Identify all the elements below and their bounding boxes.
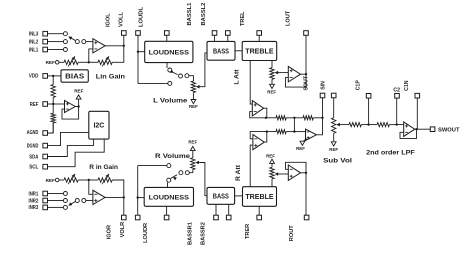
switch SW3 contact bypass (168, 81, 172, 85)
svg-text:SIN: SIN (320, 81, 326, 90)
svg-text:REF: REF (329, 147, 338, 152)
junction LOUDR / loudness in (137, 196, 139, 198)
selector SW1 contact INL1 (63, 48, 67, 52)
svg-text:IGOR: IGOR (106, 225, 112, 239)
resistor R4 (R mix) (276, 130, 286, 134)
selector SW1 pole (75, 40, 79, 44)
wire L Volume bottom to REF (192, 93, 194, 100)
svg-text:TREBLE: TREBLE (245, 49, 274, 56)
wire U3 output (105, 196, 124, 198)
wire junction to pot VR2 (89, 61, 98, 63)
svg-text:REF: REF (46, 60, 55, 65)
pin INR3 (43, 205, 48, 210)
block BIAS (61, 70, 88, 82)
svg-text:C2: C2 (393, 88, 400, 94)
wire U3 feedback up (89, 180, 93, 194)
pot Sub Vol (332, 118, 336, 134)
pin TRER (257, 215, 262, 220)
wire LOUT pin down (305, 35, 307, 74)
wire ROUT pin down (305, 173, 307, 216)
svg-text:TREBLE: TREBLE (245, 194, 274, 201)
svg-text:BASS: BASS (213, 193, 229, 200)
REF symbol Sub Vol (331, 142, 336, 146)
svg-text:R Volume: R Volume (155, 153, 190, 160)
junction C1P node (367, 123, 369, 125)
pin LOUDR (135, 215, 140, 220)
wire L Att bottom to REF (271, 79, 273, 84)
wire BASSR1 pin (215, 204, 217, 215)
pin VOLR (122, 215, 127, 220)
resistor R3 (L mix) (276, 116, 286, 120)
block LOUDNESS R (144, 187, 193, 206)
pin C2 (395, 94, 400, 99)
svg-text:Lin Gain: Lin Gain (96, 74, 125, 81)
pin BASSR1 (214, 215, 219, 220)
wire LOUDL to LOUDNESS box (138, 51, 145, 53)
op-amp U1 (L input gain) (93, 39, 105, 53)
wire BASS to TREBLE (235, 50, 242, 52)
svg-text:REF: REF (30, 102, 39, 108)
wire BASSL1 pin (214, 35, 216, 41)
svg-text:BASS: BASS (213, 48, 229, 55)
wire LOUDNESS out to switch (166, 63, 168, 68)
svg-text:LOUDNESS: LOUDNESS (149, 49, 190, 56)
svg-text:REF: REF (266, 153, 275, 158)
svg-text:REF: REF (296, 146, 305, 151)
svg-text:REF: REF (189, 104, 198, 109)
svg-text:SOUT: SOUT (304, 75, 310, 90)
svg-text:IGOL: IGOL (105, 13, 111, 27)
svg-text:R in Gain: R in Gain (89, 164, 118, 171)
pin TREL (257, 31, 262, 36)
wire VR1 to junction (78, 61, 89, 63)
svg-text:INL3: INL3 (29, 32, 38, 38)
op-amp U2 (REF buffer) (65, 101, 76, 113)
wire R6 to C1P node (361, 124, 377, 126)
svg-text:DGND: DGND (27, 143, 39, 149)
switch SW3 arm (171, 72, 177, 75)
svg-text:VOLR: VOLR (120, 222, 126, 238)
pin SOUT (320, 93, 325, 98)
wire tie junctions (293, 118, 295, 132)
svg-text:C1P: C1P (355, 80, 361, 91)
selector SW1 contact INL3 (63, 32, 67, 36)
REF symbol R Att (270, 159, 275, 163)
wire REF node to op-amp U2 (53, 103, 64, 105)
switch SW4 contact loudness (167, 178, 171, 182)
REF symbol U8 (300, 141, 305, 145)
wire U9 output (415, 128, 431, 130)
REF symbol L Volume (191, 100, 196, 104)
pin SWOUT (430, 127, 435, 132)
svg-text:SDA: SDA (29, 154, 38, 160)
wire INR2 to selector (48, 200, 64, 202)
wire L Volume wiper to BASS (200, 53, 207, 87)
svg-text:SWOUT: SWOUT (438, 127, 460, 133)
wire C2 down (396, 98, 398, 125)
wire U5 feedback (286, 162, 307, 173)
junction U6 out (265, 117, 267, 119)
svg-text:INR3: INR3 (29, 205, 39, 211)
wire U6 feedback (250, 112, 267, 118)
wire INR1 to selector (48, 193, 64, 195)
pot VR2 (L in gain) (98, 60, 112, 64)
wire VDD to BIAS (48, 75, 62, 77)
pin AGND (43, 131, 48, 136)
op-amp U5 (R output) (288, 165, 300, 181)
wire R5 to SOUT node (313, 117, 322, 119)
pot VR1 (L in gain) (64, 60, 78, 64)
selector SW2 contact INR3 (63, 205, 67, 209)
pin C1N (415, 93, 420, 98)
REF symbol R Volume (190, 146, 195, 150)
resistor R5 (sum feedback) (303, 116, 313, 120)
REF symbol L Att (270, 84, 275, 88)
wire R Att wiper to op-amp U5 (279, 173, 289, 175)
op-amp U7 (R sub buffer) (253, 135, 264, 150)
wire INL2 to selector (48, 41, 64, 43)
svg-text:BASSR2: BASSR2 (201, 222, 207, 245)
junction VDD node (52, 75, 54, 77)
wire to resistor R3 (267, 117, 276, 119)
resistor R7 (LPF) (377, 123, 389, 127)
pin INL1 (43, 47, 48, 52)
pin ROUT (304, 215, 309, 220)
pin INR2 (43, 198, 48, 203)
wire selector to op-amp U1 (86, 41, 93, 43)
wire U8 ref input (303, 139, 307, 142)
op-amp U3 (R input gain) (93, 190, 105, 204)
svg-text:INL1: INL1 (29, 47, 38, 53)
wire BASSR2 pin (228, 204, 230, 215)
junction SOUT / feedback (321, 117, 323, 119)
wire U5 output to ROUT node (301, 172, 307, 174)
svg-text:LOUDL: LOUDL (138, 6, 144, 27)
svg-text:L Volume: L Volume (153, 98, 188, 105)
pin SIN (331, 93, 336, 98)
wire R Volume top to REF (192, 151, 194, 158)
svg-text:I2C: I2C (93, 123, 104, 130)
switch SW4 output contact (185, 171, 189, 175)
svg-text:TRER: TRER (245, 224, 251, 239)
wire R4 to sum node (286, 131, 294, 133)
wire to pin VOLL (123, 35, 125, 46)
pin BASSL1 (212, 31, 217, 36)
pin SDA (43, 154, 48, 159)
junction LOUT node (305, 73, 307, 75)
pin VOLL (122, 31, 127, 36)
selector SW2 output contact (82, 199, 86, 203)
pin INL2 (43, 39, 48, 44)
junction feedback / R gain pots (88, 179, 90, 181)
wire TREBLE R tap up (250, 145, 253, 187)
wire loudness cap R (166, 206, 168, 215)
wire selector to op-amp U3 (86, 200, 93, 202)
wire switch to L Volume pot (189, 76, 194, 81)
switch SW3 contact loudness (168, 68, 172, 72)
svg-text:2nd order LPF: 2nd order LPF (366, 150, 415, 157)
wire U4 output to LOUT node (301, 73, 307, 75)
wire BASSL2 pin (227, 35, 229, 41)
svg-text:INL2: INL2 (29, 39, 38, 45)
selector SW2 contact INR1 (63, 192, 67, 196)
junction C2 node (396, 123, 398, 125)
wire U9 feedback (400, 129, 417, 138)
wire Sub Vol wiper to R6 (340, 124, 349, 126)
switch SW3 pole (179, 74, 183, 78)
switch SW4 arm (171, 175, 178, 179)
svg-text:BIAS: BIAS (65, 74, 84, 81)
wire LOUDL pin down (137, 35, 139, 83)
op-amp U6 (L sub buffer) (252, 101, 263, 116)
wire AGND to divider (48, 123, 54, 133)
pin INL3 (43, 31, 48, 36)
wire TREBLE L tap down (250, 61, 252, 105)
wire loudness cap pin to box (166, 35, 168, 41)
selector SW1 output contact (82, 40, 86, 44)
wire INL3 to selector (48, 33, 64, 35)
wire R Volume wiper to BASS R (199, 163, 207, 196)
block BASS L (207, 41, 235, 60)
block BASS R (207, 187, 235, 204)
junction U7 out (266, 130, 268, 132)
selector SW2 arm (70, 201, 77, 205)
wire TREBLE R out to R Att pot (271, 179, 273, 187)
wire U1 feedback down (89, 49, 93, 62)
wire switch to R Volume pot (189, 170, 193, 173)
wire to pin VOLR (123, 197, 125, 215)
selector SW2 pole (75, 199, 79, 203)
junction LOUDL / loudness in (137, 51, 139, 53)
wire L Att wiper to op-amp U4 (279, 72, 289, 74)
wire SCL to I2C (48, 139, 105, 167)
svg-text:ROUT: ROUT (289, 225, 295, 241)
wire U8 output (316, 98, 322, 135)
wire R7 to op-amp U9 (389, 124, 403, 126)
pin C1P (366, 94, 371, 99)
pin SCL (43, 164, 48, 169)
op-amp U9 (2nd order LPF) (404, 122, 415, 136)
wire U2 out to REF symbol (78, 99, 80, 106)
wire TRER pin (258, 206, 260, 215)
switch SW4 pole (179, 171, 183, 175)
pin INR1 (43, 191, 48, 196)
svg-text:LOUDNESS: LOUDNESS (149, 194, 190, 201)
svg-text:AGND: AGND (27, 130, 39, 136)
wire C1N down (416, 98, 418, 129)
wire SDA to I2C (48, 139, 94, 156)
wire INR3 to selector (48, 206, 64, 208)
wire bypass R (138, 165, 167, 167)
resistor R1 (VDD-REF divider) (52, 76, 54, 85)
svg-text:C1N: C1N (404, 80, 410, 91)
pin VDD (43, 74, 48, 79)
selector SW1 arm (70, 37, 77, 41)
pin DGND (43, 143, 48, 148)
wire sum node to op-amp U8 (294, 131, 305, 133)
wire DGND to I2C (48, 132, 89, 145)
wire junction to pot VR4 (89, 179, 98, 181)
REF source L input (55, 61, 59, 65)
wire bypass (138, 83, 168, 85)
junction C1N node (415, 128, 417, 130)
wire U7 feedback (250, 132, 267, 139)
wire Sub Vol bottom to REF (333, 133, 335, 141)
wire LOUDR to LOUDNESS box (138, 197, 145, 199)
pot R Volume (191, 158, 195, 170)
resistor R2 (REF-AGND divider) (52, 104, 54, 113)
svg-text:REF: REF (46, 178, 55, 183)
svg-text:LOUDR: LOUDR (143, 223, 149, 243)
REF source R input (55, 178, 59, 182)
svg-text:VDD: VDD (29, 74, 39, 80)
block TREBLE R (243, 187, 277, 207)
svg-text:INR1: INR1 (29, 191, 39, 197)
pin loudness cap L (165, 31, 170, 36)
switch SW4 contact bypass (167, 164, 171, 168)
wire REF pin to node (48, 103, 54, 105)
junction U2 output (77, 105, 79, 107)
wire R Att top to REF (271, 163, 273, 167)
REF symbol above U2 (76, 95, 81, 99)
wire TREBLE out to L Att pot (271, 61, 273, 68)
pin BASSR2 (226, 215, 231, 220)
svg-text:TREL: TREL (240, 11, 246, 26)
wire to resistor R4 (267, 131, 276, 133)
wire U6 output (264, 108, 267, 118)
junction U1 out / VOLL (123, 45, 125, 47)
op-amp U4 (L output) (288, 66, 300, 82)
wire SIN to Sub Vol (333, 98, 335, 118)
pot L Volume (191, 81, 195, 93)
pot VR3 (R in gain) (64, 178, 78, 182)
pot L Att (270, 68, 274, 80)
wire REF to pot VR1 (59, 61, 64, 63)
svg-text:REF: REF (188, 140, 197, 145)
block I2C (89, 111, 109, 139)
wire BASS R to TREBLE R (235, 195, 243, 197)
pot R Att (270, 167, 274, 179)
svg-text:R Att: R Att (235, 164, 242, 181)
wire U7 output (264, 132, 267, 143)
pot VR4 (R in gain) (98, 178, 112, 182)
pin BASSL2 (226, 31, 231, 36)
pin LOUDL (136, 31, 141, 36)
svg-text:REF: REF (74, 89, 83, 94)
wire R3 to sum node (286, 117, 303, 119)
wire U2 output (75, 106, 78, 108)
wire REF to pot VR3 (59, 179, 64, 181)
wire VR2 to output node (112, 46, 124, 63)
svg-text:Sub Vol: Sub Vol (323, 157, 352, 164)
svg-text:BASSL1: BASSL1 (187, 3, 193, 26)
wire C1P down (368, 98, 370, 125)
wire LOUDR pin up (137, 166, 139, 215)
svg-text:L Att: L Att (234, 69, 241, 85)
svg-text:REF: REF (267, 90, 276, 95)
svg-text:BASSL2: BASSL2 (201, 3, 207, 26)
wire VR4 to output node (112, 180, 124, 197)
junction U3 out / VOLR (123, 196, 125, 198)
svg-text:VOLL: VOLL (118, 12, 124, 27)
svg-text:INR2: INR2 (29, 198, 39, 204)
pin loudness cap R (164, 215, 169, 220)
wire LOUDNESS R out to switch (167, 182, 169, 187)
wire U2 feedback loop (62, 107, 79, 120)
pin LOUT (304, 31, 309, 36)
wire U4 feedback (286, 74, 307, 87)
junction REF node (52, 103, 54, 105)
switch SW3 output contact (185, 74, 189, 78)
block LOUDNESS L (145, 41, 193, 62)
pin REF (43, 102, 48, 107)
selector SW1 contact INL2 (63, 40, 67, 44)
junction sum node top (293, 117, 295, 119)
svg-text:SCL: SCL (29, 165, 39, 171)
junction feedback / gain pots (88, 61, 90, 63)
op-amp U8 (sub sum) (306, 129, 317, 140)
svg-text:LOUT: LOUT (286, 10, 292, 26)
svg-text:BASSR1: BASSR1 (188, 222, 194, 245)
junction ROUT node (305, 172, 307, 174)
selector SW2 contact INR2 (63, 199, 67, 203)
wire INL1 to selector (48, 49, 64, 51)
resistor R6 (LPF) (349, 123, 362, 127)
wire U1 output (105, 45, 124, 47)
wire TREL pin (258, 35, 260, 41)
junction sum node bottom (293, 130, 295, 132)
wire VR3 to junction (78, 179, 89, 181)
block TREBLE L (242, 41, 277, 60)
